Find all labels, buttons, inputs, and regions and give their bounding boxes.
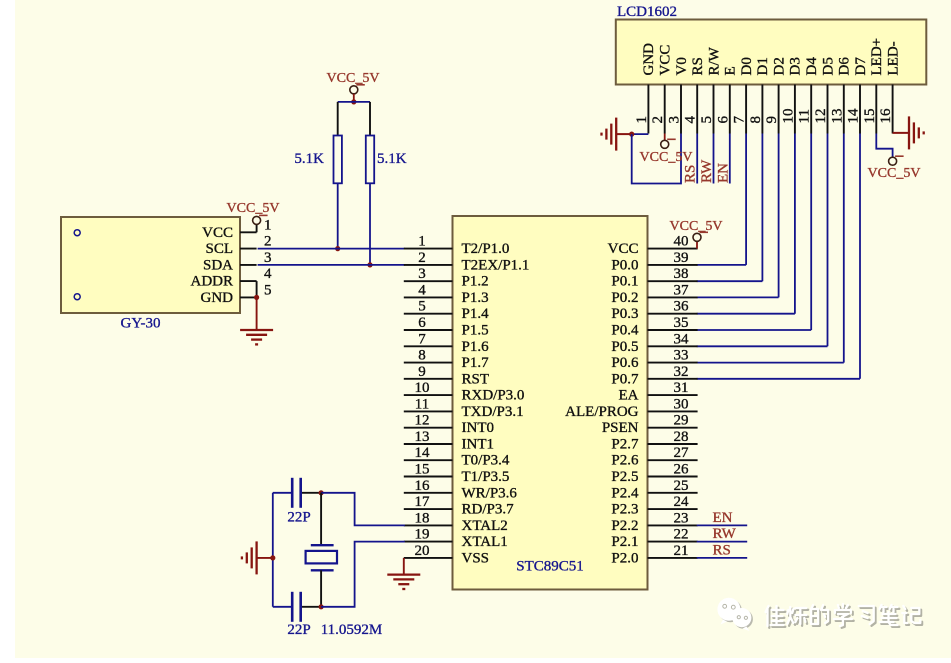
svg-text:EA: EA: [619, 388, 639, 404]
power port VCC_5V GY30: [253, 216, 261, 224]
LCD pin 7 stub: [745, 85, 747, 134]
svg-text:P1.2: P1.2: [462, 274, 489, 290]
svg-text:VSS: VSS: [462, 550, 490, 566]
svg-text:T2EX/P1.1: T2EX/P1.1: [462, 257, 530, 273]
wire D6 horizontal to P0.6: [697, 362, 844, 364]
wire LCD pin6 net EN: [729, 134, 731, 184]
svg-text:D2: D2: [771, 57, 787, 75]
MCU pin 21 stub: [648, 557, 698, 559]
svg-text:P0.2: P0.2: [611, 290, 638, 306]
wire D2 vertical: [778, 134, 780, 298]
LCD pin 3 stub: [680, 85, 682, 134]
MCU pin 4 stub: [404, 296, 453, 298]
svg-text:3: 3: [418, 266, 426, 282]
svg-text:SDA: SDA: [203, 257, 233, 273]
svg-text:8: 8: [748, 116, 764, 124]
svg-text:7: 7: [418, 331, 426, 347]
svg-text:T0/P3.4: T0/P3.4: [462, 453, 510, 469]
wire LED- to ground: [893, 132, 909, 134]
MCU pin 25 stub: [648, 492, 698, 494]
MCU pin 39 stub: [648, 264, 698, 266]
ground below GY-30: [240, 329, 273, 331]
svg-text:11.0592M: 11.0592M: [321, 622, 383, 638]
watermark text 佳烁的学习笔记: [766, 606, 786, 628]
LCD pin 11 stub: [810, 85, 812, 134]
svg-text:21: 21: [674, 543, 689, 559]
IC U1 STC89C51 body: [453, 216, 648, 590]
MCU pin 28 stub: [648, 443, 698, 445]
svg-text:39: 39: [674, 250, 689, 266]
svg-text:5: 5: [264, 282, 272, 298]
svg-text:P0.0: P0.0: [611, 257, 638, 273]
MCU pin 13 stub: [404, 443, 453, 445]
wire D7 vertical: [859, 134, 861, 379]
node R2-SDA junction: [367, 262, 372, 267]
svg-text:3: 3: [667, 116, 683, 124]
svg-text:D4: D4: [804, 57, 820, 76]
svg-text:VCC_5V: VCC_5V: [640, 150, 693, 165]
svg-text:P0.1: P0.1: [611, 274, 638, 290]
resistor R1 body: [334, 136, 342, 184]
svg-text:XTAL2: XTAL2: [462, 518, 508, 534]
wire resistor top tee: [338, 101, 370, 103]
wire D1 horizontal to P0.1: [697, 280, 763, 282]
svg-text:23: 23: [674, 510, 689, 526]
svg-text:31: 31: [674, 380, 689, 396]
MCU pin 37 stub: [648, 296, 698, 298]
svg-text:13: 13: [829, 109, 845, 124]
MCU pin 2 stub: [404, 264, 453, 266]
watermark logo bubble big: [717, 598, 742, 625]
svg-text:WR/P3.6: WR/P3.6: [462, 485, 518, 501]
svg-text:35: 35: [674, 315, 689, 331]
svg-text:P2.3: P2.3: [611, 502, 638, 518]
svg-text:15: 15: [862, 109, 878, 124]
svg-text:E: E: [723, 66, 739, 75]
ground below VSS: [387, 573, 420, 575]
MCU pin 5 stub: [404, 313, 453, 315]
svg-text:6: 6: [715, 116, 731, 124]
svg-text:VCC: VCC: [608, 241, 639, 257]
wire D1 vertical: [761, 134, 763, 282]
MCU pin 32 stub: [648, 378, 698, 380]
svg-text:TXD/P3.1: TXD/P3.1: [462, 404, 524, 420]
svg-text:5: 5: [418, 299, 426, 315]
svg-text:P0.6: P0.6: [611, 355, 639, 371]
wire SCL net: [258, 248, 405, 250]
svg-text:PSEN: PSEN: [602, 420, 639, 436]
node xtal bottom junction: [319, 604, 324, 609]
svg-text:INT1: INT1: [462, 437, 495, 453]
svg-text:P2.0: P2.0: [611, 550, 638, 566]
LCD pin 8 stub: [761, 85, 763, 134]
LCD pin 6 stub: [729, 85, 731, 134]
svg-text:13: 13: [415, 429, 430, 445]
wire D6 vertical: [843, 134, 845, 363]
wire D2 horizontal to P0.2: [697, 296, 779, 298]
GY-30 pin 3 stub: [240, 264, 257, 266]
svg-text:14: 14: [415, 445, 431, 461]
MCU pin 27 stub: [648, 459, 698, 461]
node resistor top junction: [351, 99, 356, 104]
svg-text:RS: RS: [683, 165, 699, 183]
svg-text:SCL: SCL: [205, 241, 233, 257]
svg-text:P1.5: P1.5: [462, 323, 489, 339]
svg-text:11: 11: [415, 396, 429, 412]
svg-text:P0.5: P0.5: [611, 339, 638, 355]
LCD pin 5 stub: [713, 85, 715, 134]
svg-text:18: 18: [415, 510, 430, 526]
svg-text:P0.4: P0.4: [611, 323, 639, 339]
svg-text:40: 40: [674, 234, 689, 250]
svg-text:XTAL1: XTAL1: [462, 534, 508, 550]
svg-text:P1.3: P1.3: [462, 290, 489, 306]
svg-text:VCC_5V: VCC_5V: [227, 201, 280, 216]
MCU pin 24 stub: [648, 508, 698, 510]
MCU pin 9 stub: [404, 378, 453, 380]
MCU pin 1 stub: [404, 248, 453, 250]
svg-text:2: 2: [264, 234, 272, 250]
svg-text:RST: RST: [462, 371, 490, 387]
wire LCD pin4 net RS: [696, 134, 698, 184]
wire D7 horizontal to P0.7: [697, 378, 860, 380]
node xtal top junction: [319, 490, 324, 495]
svg-text:VCC_5V: VCC_5V: [327, 71, 380, 86]
svg-text:RXD/P3.0: RXD/P3.0: [462, 388, 525, 404]
wire to left ground: [616, 133, 632, 135]
wire V0 net: [632, 134, 681, 184]
wire xtal ground stem: [257, 557, 273, 559]
svg-text:P2.1: P2.1: [611, 534, 638, 550]
MCU pin 30 stub: [648, 410, 698, 412]
svg-text:1: 1: [634, 116, 650, 124]
wire xtal bottom right: [321, 542, 405, 607]
node GY30 GND junction: [254, 295, 259, 300]
LCD pin 10 stub: [794, 85, 796, 134]
svg-text:D7: D7: [853, 57, 869, 76]
svg-text:4: 4: [683, 116, 699, 124]
IC U2 LCD1602 body: [616, 20, 927, 85]
svg-text:22: 22: [674, 527, 689, 543]
resistor R2 body: [366, 136, 374, 184]
svg-text:9: 9: [418, 364, 426, 380]
svg-text:5: 5: [699, 116, 715, 124]
MCU pin 12 stub: [404, 427, 453, 429]
capacitor C2 plate right: [299, 592, 302, 622]
GY-30 mounting pad top: [74, 230, 80, 236]
svg-text:34: 34: [674, 331, 690, 347]
LCD pin 9 stub: [778, 85, 780, 134]
svg-text:5.1K: 5.1K: [377, 151, 407, 167]
svg-text:16: 16: [878, 108, 894, 124]
LCD pin 12 stub: [827, 85, 829, 134]
ground right of LCD: [908, 116, 910, 149]
wire xtal top left: [273, 492, 292, 494]
MCU pin 38 stub: [648, 280, 698, 282]
wire R2 bottom to SDA: [369, 183, 371, 265]
node LCD GND junction: [629, 132, 634, 137]
svg-text:GY-30: GY-30: [121, 316, 161, 332]
MCU pin 31 stub: [648, 394, 698, 396]
wire xtal bottom mid: [301, 606, 321, 608]
MCU pin 29 stub: [648, 427, 698, 429]
svg-text:1: 1: [264, 217, 272, 233]
svg-text:11: 11: [797, 109, 813, 123]
svg-text:V0: V0: [674, 57, 690, 75]
svg-text:17: 17: [415, 494, 431, 510]
MCU pin 22 stub: [648, 541, 698, 543]
wire LED+ to VCC: [876, 134, 892, 158]
wire crystal bottom lead: [320, 570, 322, 607]
wire SDA net: [258, 264, 405, 266]
svg-text:32: 32: [674, 364, 689, 380]
wire LCD pin5 net RW: [713, 134, 715, 184]
MCU pin 34 stub: [648, 345, 698, 347]
svg-text:38: 38: [674, 266, 689, 282]
svg-text:P0.7: P0.7: [611, 371, 639, 387]
svg-text:5.1K: 5.1K: [294, 151, 324, 167]
MCU pin 3 stub: [404, 280, 453, 282]
svg-text:ALE/PROG: ALE/PROG: [565, 404, 639, 420]
svg-text:P2.4: P2.4: [611, 485, 639, 501]
svg-text:D6: D6: [837, 57, 853, 76]
LCD pin 4 stub: [696, 85, 698, 134]
svg-text:EN: EN: [713, 510, 733, 526]
svg-text:12: 12: [813, 109, 829, 124]
capacitor C1 plate right: [299, 478, 302, 508]
svg-text:22P: 22P: [287, 510, 310, 526]
svg-text:26: 26: [674, 462, 690, 478]
svg-text:10: 10: [780, 109, 796, 124]
wire GY30 VCC riser: [256, 224, 258, 232]
svg-text:P2.5: P2.5: [611, 469, 638, 485]
wire port to junction: [353, 94, 355, 102]
svg-text:RD/P3.7: RD/P3.7: [462, 502, 515, 518]
svg-text:4: 4: [264, 266, 272, 282]
svg-text:10: 10: [415, 380, 430, 396]
svg-text:12: 12: [415, 413, 430, 429]
svg-text:T2/P1.0: T2/P1.0: [462, 241, 510, 257]
power port VCC_5V at LCD pin2: [661, 140, 669, 148]
svg-text:16: 16: [415, 478, 431, 494]
wire D4 vertical: [810, 134, 812, 331]
wire VSS ground stem: [403, 558, 405, 575]
node R1-SCL junction: [335, 246, 340, 251]
MCU pin 26 stub: [648, 476, 698, 478]
svg-text:9: 9: [764, 116, 780, 124]
GY-30 pin 5 stub: [240, 296, 257, 298]
MCU pin 8 stub: [404, 362, 453, 364]
svg-text:RS: RS: [713, 542, 731, 558]
svg-text:29: 29: [674, 413, 689, 429]
IC U3 GY-30 body: [61, 217, 240, 313]
svg-text:P1.7: P1.7: [462, 355, 490, 371]
svg-text:28: 28: [674, 429, 689, 445]
wire R1 top lead: [337, 102, 339, 136]
MCU pin 16 stub: [404, 492, 453, 494]
crystal Y1 body: [306, 551, 337, 564]
wire LCD pin1 to ground: [632, 133, 649, 135]
svg-text:GND: GND: [201, 290, 234, 306]
svg-text:LED+: LED+: [869, 38, 885, 76]
svg-text:27: 27: [674, 445, 690, 461]
watermark logo bubble small: [732, 608, 753, 631]
wire ADDR drop: [256, 281, 258, 297]
wire xtal top right: [321, 493, 405, 526]
svg-text:P2.7: P2.7: [611, 437, 639, 453]
svg-text:R/W: R/W: [706, 46, 722, 75]
svg-text:RS: RS: [690, 57, 706, 75]
svg-text:P1.4: P1.4: [462, 306, 490, 322]
svg-text:ADDR: ADDR: [190, 274, 233, 290]
MCU pin 17 stub: [404, 508, 453, 510]
node xtal ground junction: [270, 555, 275, 560]
MCU pin 20 stub: [404, 557, 453, 559]
svg-text:P0.3: P0.3: [611, 306, 638, 322]
wire R2 top lead: [369, 102, 371, 136]
crystal Y1 bottom plate: [311, 569, 334, 571]
svg-text:LCD1602: LCD1602: [617, 4, 677, 20]
svg-text:EN: EN: [715, 163, 731, 183]
LCD pin 16 stub: [892, 85, 894, 134]
LCD pin 14 stub: [859, 85, 861, 134]
svg-text:7: 7: [732, 116, 748, 124]
svg-text:VCC: VCC: [202, 225, 233, 241]
LCD pin 13 stub: [843, 85, 845, 134]
svg-text:36: 36: [674, 299, 690, 315]
svg-text:LED-: LED-: [885, 41, 901, 75]
capacitor C2 plate left: [291, 592, 294, 622]
wire D3 vertical: [794, 134, 796, 314]
svg-text:8: 8: [418, 348, 426, 364]
wire R1 bottom to SCL: [337, 183, 339, 248]
svg-text:24: 24: [674, 494, 690, 510]
LCD pin 2 stub: [664, 85, 666, 134]
MCU pin 6 stub: [404, 329, 453, 331]
svg-text:STC89C51: STC89C51: [516, 559, 584, 575]
ground left of crystal: [255, 541, 257, 574]
svg-text:RW: RW: [699, 159, 715, 183]
svg-text:2: 2: [418, 250, 426, 266]
svg-text:VCC_5V: VCC_5V: [868, 166, 921, 181]
power port VCC_5V resistors: [350, 86, 358, 94]
power port VCC_5V MCU: [693, 233, 701, 241]
crystal Y1 top plate: [311, 544, 334, 546]
svg-text:1: 1: [418, 234, 426, 250]
MCU pin 15 stub: [404, 476, 453, 478]
power port VCC_5V at LED+: [889, 157, 897, 165]
wire GY30 ground stem: [256, 297, 258, 329]
wire xtal bottom left: [273, 606, 292, 608]
svg-text:2: 2: [650, 116, 666, 124]
ground left of LCD: [615, 118, 617, 151]
svg-text:P2.6: P2.6: [611, 453, 639, 469]
svg-text:37: 37: [674, 282, 690, 298]
MCU pin 19 stub: [404, 541, 453, 543]
wire MCU VCC riser: [696, 241, 698, 248]
wire net EN: [697, 524, 748, 526]
svg-text:22P: 22P: [287, 622, 310, 638]
svg-text:GND: GND: [641, 43, 657, 76]
svg-text:4: 4: [418, 282, 426, 298]
watermark: [717, 598, 922, 631]
MCU pin 14 stub: [404, 459, 453, 461]
LCD pin 15 stub: [875, 85, 877, 134]
wire xtal left vertical: [272, 493, 274, 607]
wire D5 vertical: [827, 134, 829, 347]
svg-text:T1/P3.5: T1/P3.5: [462, 469, 510, 485]
MCU pin 7 stub: [404, 345, 453, 347]
wire LCD VCC riser: [664, 134, 666, 141]
svg-text:33: 33: [674, 348, 689, 364]
svg-text:D1: D1: [755, 57, 771, 75]
capacitor C1 plate left: [291, 478, 294, 508]
svg-text:D3: D3: [788, 57, 804, 75]
MCU pin 36 stub: [648, 313, 698, 315]
svg-text:6: 6: [418, 315, 426, 331]
wire D0 vertical: [745, 134, 747, 265]
svg-text:25: 25: [674, 478, 689, 494]
MCU pin 11 stub: [404, 410, 453, 412]
GY-30 pin 2 stub: [240, 248, 257, 250]
wire xtal top mid: [301, 492, 321, 494]
svg-text:14: 14: [846, 108, 862, 124]
MCU pin 18 stub: [404, 524, 453, 526]
svg-text:D0: D0: [739, 57, 755, 75]
svg-text:INT0: INT0: [462, 420, 495, 436]
svg-text:30: 30: [674, 396, 689, 412]
svg-text:RW: RW: [713, 526, 737, 542]
GY-30 pin 4 stub: [240, 280, 257, 282]
wire D0 horizontal to P0.0: [697, 264, 746, 266]
wire D5 horizontal to P0.5: [697, 345, 828, 347]
svg-text:19: 19: [415, 527, 430, 543]
MCU pin 10 stub: [404, 394, 453, 396]
svg-text:VCC_5V: VCC_5V: [670, 219, 723, 234]
wire D3 horizontal to P0.3: [697, 313, 795, 315]
svg-text:VCC: VCC: [658, 45, 674, 76]
MCU pin 40 stub: [648, 248, 698, 250]
MCU pin 35 stub: [648, 329, 698, 331]
svg-text:P2.2: P2.2: [611, 518, 638, 534]
svg-text:P1.6: P1.6: [462, 339, 490, 355]
wire D4 horizontal to P0.4: [697, 329, 812, 331]
wire net RW: [697, 541, 748, 543]
GY-30 pin 1 stub: [240, 231, 257, 233]
MCU pin 23 stub: [648, 524, 698, 526]
wire net RS: [697, 557, 748, 559]
svg-text:15: 15: [415, 462, 430, 478]
wire crystal top lead: [320, 493, 322, 545]
svg-text:3: 3: [264, 250, 272, 266]
LCD pin 1 stub: [647, 85, 649, 134]
GY-30 mounting pad bottom: [74, 294, 80, 300]
svg-text:20: 20: [415, 543, 430, 559]
svg-text:D5: D5: [820, 57, 836, 75]
MCU pin 33 stub: [648, 362, 698, 364]
